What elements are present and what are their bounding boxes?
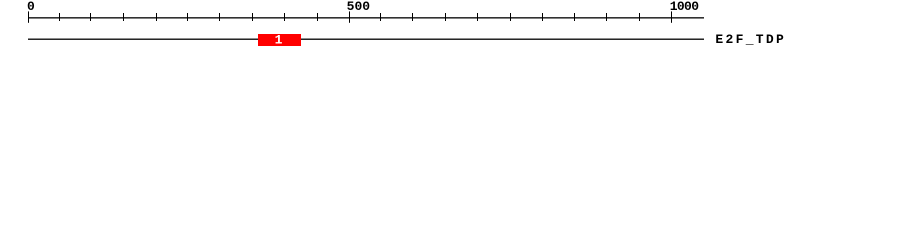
ruler minor tick 950 xyxy=(639,13,640,21)
ruler minor tick 200 xyxy=(156,13,157,21)
svg-text:E2F_TDP: E2F_TDP xyxy=(715,32,784,47)
ruler minor tick 900 xyxy=(606,13,607,21)
ruler minor tick 50 xyxy=(59,13,60,21)
ruler minor tick 550 xyxy=(380,13,381,21)
ruler minor tick 400 xyxy=(284,13,285,21)
ruler minor tick 350 xyxy=(252,13,253,21)
ruler minor tick 650 xyxy=(445,13,446,21)
ruler major tick 1000 xyxy=(671,11,672,22)
domain box 1 E2F_TDP xyxy=(258,34,301,46)
ruler major tick 500 xyxy=(349,11,350,22)
ruler minor tick 700 xyxy=(477,13,478,21)
ruler axis line xyxy=(28,17,704,18)
ruler minor tick 300 xyxy=(219,13,220,21)
svg-text:1000: 1000 xyxy=(670,0,699,14)
ruler minor tick 600 xyxy=(412,13,413,21)
ruler major tick 0 xyxy=(28,11,29,22)
svg-text:500: 500 xyxy=(347,0,371,14)
ruler minor tick 250 xyxy=(187,13,188,21)
ruler minor tick 100 xyxy=(90,13,91,21)
ruler minor tick 150 xyxy=(123,13,124,21)
ruler minor tick 450 xyxy=(317,13,318,21)
ruler minor tick 850 xyxy=(574,13,575,21)
ruler minor tick 750 xyxy=(510,13,511,21)
svg-text:1: 1 xyxy=(275,33,283,48)
ruler minor tick 800 xyxy=(542,13,543,21)
background xyxy=(0,0,900,58)
protein backbone line xyxy=(28,39,704,40)
